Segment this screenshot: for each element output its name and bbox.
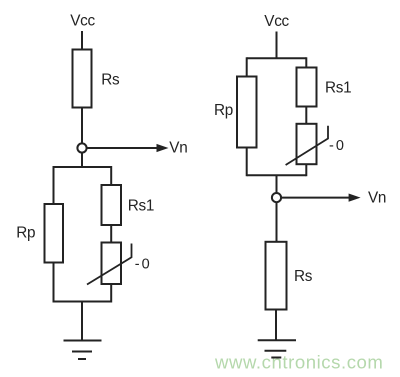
- svg-text:Rp: Rp: [16, 224, 35, 241]
- wire bottom bus (left): [54, 301, 112, 303]
- ground (left): [64, 341, 102, 360]
- wire thermistor to bottom bus (left): [110, 284, 112, 303]
- node Vn junction circle (right): [272, 193, 281, 202]
- svg-text:Rs1: Rs1: [325, 79, 351, 96]
- svg-text:Rp: Rp: [214, 102, 233, 119]
- resistor Rs (left): [73, 50, 92, 108]
- thermistor diagonal stroke (right): [286, 126, 328, 165]
- svg-text:Rs: Rs: [101, 72, 120, 89]
- wire Rp to bottom bus (left): [53, 263, 55, 303]
- wire bus to Rp (left): [53, 166, 55, 204]
- resistor Rp (left): [45, 204, 64, 263]
- thermistor body (left): [102, 243, 122, 285]
- wire Vcc to top bus (right): [276, 32, 278, 59]
- thermistor body (right): [297, 124, 317, 164]
- wire bus to ground (left): [81, 302, 83, 341]
- svg-text:Vcc: Vcc: [264, 13, 289, 30]
- resistor Rs (right): [266, 242, 287, 310]
- wire thermistor to bottom bus (right): [305, 164, 307, 176]
- wire Rs1 to thermistor (left): [110, 225, 112, 243]
- resistor Rs1 (left): [102, 185, 122, 225]
- wire arrow to Vn (left): [87, 144, 169, 152]
- svg-text:www.cntronics.com: www.cntronics.com: [214, 352, 383, 373]
- wire Rs to ground (right): [275, 310, 277, 341]
- svg-text:Vcc: Vcc: [70, 12, 95, 29]
- svg-text:Vn: Vn: [169, 139, 187, 156]
- wire top bus (left): [54, 166, 112, 168]
- resistor Rp (right): [237, 77, 257, 148]
- wire Vcc to Rs (left): [81, 31, 83, 50]
- wire node to Rs (right): [276, 202, 278, 242]
- thermistor diagonal stroke (left): [87, 244, 132, 285]
- wire Rs to node (left): [81, 108, 83, 144]
- wire arrow to Vn (right): [281, 194, 361, 202]
- svg-text:Rs1: Rs1: [128, 197, 154, 214]
- wire top bus (right): [247, 57, 307, 59]
- svg-text:Vn: Vn: [368, 189, 386, 206]
- wire bus to Rs1 (left): [110, 166, 112, 185]
- wire bus to node (right): [276, 175, 278, 192]
- node Vn junction circle (left): [77, 143, 86, 152]
- svg-text:-0: -0: [135, 257, 152, 273]
- ground (right): [258, 340, 296, 357]
- wire bus to Rs1 (right): [305, 57, 307, 67]
- svg-text:Rs: Rs: [294, 268, 313, 285]
- wire bottom bus (right): [247, 174, 307, 176]
- wire bus to Rp (right): [246, 57, 248, 76]
- svg-text:-0: -0: [329, 138, 346, 154]
- wire Rs1 to thermistor (right): [305, 107, 307, 124]
- resistor Rs1 (right): [297, 68, 317, 107]
- wire Rp to bottom bus (right): [246, 148, 248, 177]
- wire node to top bus (left): [81, 153, 83, 167]
